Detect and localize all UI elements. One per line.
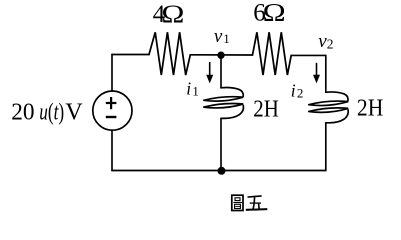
caption figure five: char WU (five)	[247, 196, 266, 210]
inductor L1 loop 2	[204, 103, 243, 107]
svg-text:i: i	[186, 79, 191, 99]
current arrow i1	[206, 62, 213, 83]
voltage source plus sign	[106, 97, 117, 109]
svg-text:V: V	[65, 100, 83, 126]
inductor L2 bottom hook	[326, 110, 348, 123]
inductor L2 top hook	[326, 92, 348, 101]
inductor L1 loop 1	[204, 97, 243, 101]
wire R1 to node v1 to R2	[190, 54, 252, 56]
svg-text:i: i	[291, 81, 296, 101]
svg-text:u(t): u(t)	[39, 98, 64, 126]
svg-text:1: 1	[223, 32, 229, 46]
wire left rail top (corner down to source)	[111, 55, 113, 92]
wire R2 to corner v2	[291, 54, 326, 56]
node v1 junction dot	[217, 52, 224, 59]
wire top segment corner to R1	[112, 54, 149, 56]
voltage source minus sign	[106, 116, 117, 118]
inductor L1 bottom hook	[221, 106, 243, 119]
resistor R2 6ohm zigzag	[253, 32, 292, 75]
inductor L1 top hook	[221, 88, 243, 97]
svg-text:v: v	[214, 26, 223, 47]
svg-text:2H: 2H	[253, 96, 279, 123]
svg-text:2H: 2H	[357, 96, 383, 122]
svg-text:Ω: Ω	[263, 0, 286, 27]
current arrow i2	[313, 63, 320, 84]
voltage source circle	[93, 91, 132, 130]
wire bottom rail	[112, 170, 326, 172]
svg-text:2: 2	[297, 86, 304, 101]
wire node v1 down to L1	[220, 55, 222, 88]
resistor R1 4ohm zigzag	[149, 32, 190, 75]
svg-text:1: 1	[192, 84, 199, 99]
bottom rail junction dot	[218, 167, 226, 175]
svg-text:2: 2	[327, 37, 334, 52]
caption figure five: char TU (traditional figure)	[232, 195, 243, 210]
svg-text:20: 20	[11, 99, 34, 125]
inductor L2 loop 2	[309, 108, 348, 112]
wire L1 down to bottom junction	[220, 118, 222, 170]
wire right rail top (v2 corner down to L2)	[325, 55, 327, 92]
inductor L2 loop 1	[309, 101, 348, 105]
wire source bottom stub	[111, 130, 113, 170]
wire right rail bottom (L2 to bottom corner)	[325, 123, 327, 171]
svg-text:Ω: Ω	[161, 0, 184, 28]
